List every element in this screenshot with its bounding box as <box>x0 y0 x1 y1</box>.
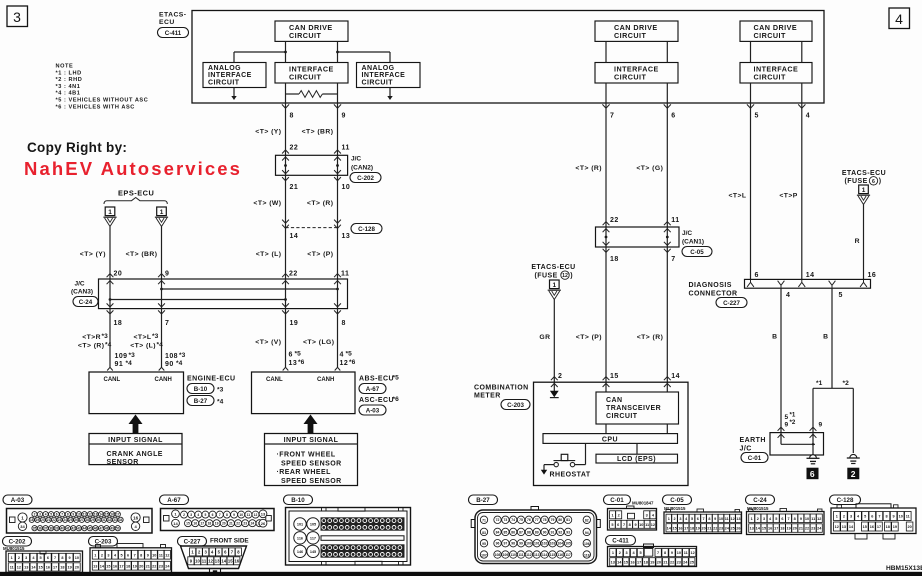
svg-text:NahEV Autoservices: NahEV Autoservices <box>24 158 242 179</box>
svg-text:21: 21 <box>663 560 667 564</box>
svg-text:12: 12 <box>562 273 568 279</box>
svg-text:7: 7 <box>657 551 659 555</box>
svg-text:1: 1 <box>668 517 670 521</box>
input signal box wheel speed sensors <box>265 434 358 486</box>
svg-text:15: 15 <box>863 525 867 529</box>
wire GR from fuse 12 to meter pin 2 <box>553 300 555 393</box>
svg-text:11: 11 <box>684 551 688 555</box>
svg-text:9: 9 <box>819 422 823 429</box>
svg-text:9: 9 <box>165 271 169 278</box>
svg-text:6: 6 <box>781 517 783 521</box>
analog interface circuit box left <box>203 63 266 88</box>
connector C-411 label capsule <box>158 28 189 38</box>
svg-text:ETACS-ECU: ETACS-ECU <box>842 170 886 177</box>
CAN drive circuit box 2 <box>595 21 678 41</box>
svg-text:15: 15 <box>672 526 676 530</box>
diagnosis top fork terminal x=750.5 <box>747 280 754 287</box>
svg-text:107: 107 <box>481 553 487 557</box>
svg-text:13: 13 <box>93 564 97 568</box>
svg-text:8: 8 <box>664 551 666 555</box>
svg-text:INTERFACE: INTERFACE <box>208 72 252 79</box>
svg-text:INPUT SIGNAL: INPUT SIGNAL <box>108 437 163 444</box>
svg-text:7: 7 <box>54 556 56 560</box>
svg-text:A-03: A-03 <box>11 497 25 504</box>
svg-text:3: 3 <box>13 9 21 25</box>
interface circuit box 2 <box>595 63 678 84</box>
svg-text:CIRCUIT: CIRCUIT <box>289 31 321 40</box>
svg-text:FRONT SIDE: FRONT SIDE <box>210 538 249 545</box>
svg-text:1: 1 <box>611 513 613 517</box>
svg-text:16: 16 <box>46 566 50 570</box>
svg-text:<T> (V): <T> (V) <box>255 339 281 346</box>
svg-text:7: 7 <box>165 320 169 327</box>
svg-text:19: 19 <box>696 526 700 530</box>
svg-text:CIRCUIT: CIRCUIT <box>289 73 321 82</box>
svg-text:15: 15 <box>186 522 190 526</box>
J/C CAN3 top terminal x=337.5 <box>334 274 341 278</box>
meter terminal x=667.3 <box>664 377 671 381</box>
svg-text:3: 3 <box>107 553 109 557</box>
diagnosis bottom fork terminal x=781 <box>778 281 785 288</box>
svg-text:110: 110 <box>510 553 516 557</box>
svg-text:C-203: C-203 <box>507 402 524 409</box>
svg-text:9: 9 <box>69 556 71 560</box>
svg-text:15: 15 <box>610 373 619 380</box>
svg-text:A-03: A-03 <box>366 407 380 414</box>
svg-text:<T> (R): <T> (R) <box>637 334 664 341</box>
svg-text:ETACS-: ETACS- <box>159 12 187 19</box>
svg-text:115: 115 <box>550 553 556 557</box>
svg-text:1: 1 <box>94 553 96 557</box>
connector view C-24 <box>746 495 775 505</box>
svg-text:13: 13 <box>611 560 615 564</box>
svg-text:22: 22 <box>670 560 674 564</box>
svg-text:*3: *3 <box>152 333 159 340</box>
wire CAN-L ETACS pin 8 down to J/C CAN2 <box>285 103 287 155</box>
svg-text:91: 91 <box>551 530 555 534</box>
connector view C-202 <box>3 537 32 547</box>
svg-text:RHEOSTAT: RHEOSTAT <box>550 471 591 478</box>
ETACS fuse 6 connector pin symbol <box>859 185 869 194</box>
svg-text:MU801515: MU801515 <box>3 546 25 551</box>
svg-text:NOTE: NOTE <box>56 64 74 70</box>
svg-text:*4: *4 <box>217 399 224 406</box>
svg-text:24: 24 <box>251 522 255 526</box>
svg-text:20: 20 <box>701 526 705 530</box>
wire J/C CAN2 pin 21 down to C-128 <box>285 175 287 227</box>
svg-text:7: 7 <box>703 517 705 521</box>
J/C CAN3 pass-through wire x=110 <box>109 279 111 309</box>
svg-text:9: 9 <box>634 523 636 527</box>
CAN drive circuit box 1 <box>275 21 348 41</box>
svg-text:9: 9 <box>714 517 716 521</box>
svg-text:<T> (L): <T> (L) <box>256 251 282 258</box>
svg-text:22: 22 <box>236 522 240 526</box>
svg-text:CONNECTOR: CONNECTOR <box>689 291 738 298</box>
svg-text:*5 : VEHICLES WITHOUT ASC: *5 : VEHICLES WITHOUT ASC <box>56 98 149 104</box>
svg-text:75: 75 <box>519 518 523 522</box>
svg-text:9: 9 <box>147 553 149 557</box>
svg-text:*1: *1 <box>790 412 796 419</box>
svg-text:GR: GR <box>539 334 550 341</box>
svg-text:18: 18 <box>610 256 619 263</box>
svg-text:1: 1 <box>160 209 164 216</box>
wire CPU to LCD <box>636 443 638 454</box>
svg-text:21: 21 <box>290 184 299 191</box>
svg-text:16: 16 <box>868 272 877 279</box>
svg-text:8: 8 <box>226 513 228 517</box>
svg-text:36: 36 <box>38 527 42 531</box>
svg-text:2: 2 <box>851 469 856 479</box>
svg-text:10: 10 <box>899 515 903 519</box>
svg-text:<T> (L): <T> (L) <box>130 343 156 350</box>
svg-text:1: 1 <box>751 517 753 521</box>
svg-text:19: 19 <box>36 518 40 522</box>
svg-text:B-10: B-10 <box>194 386 208 393</box>
svg-text:6: 6 <box>671 113 675 120</box>
meter terminal x=554.3 <box>551 377 558 381</box>
J/C CAN3 bottom terminal x=161.5 <box>158 310 165 314</box>
svg-text:22: 22 <box>152 564 156 568</box>
svg-text:J/C: J/C <box>351 156 361 163</box>
rheostat ground wire <box>544 464 554 466</box>
svg-text:7: 7 <box>61 513 63 517</box>
earth J/C terminals <box>778 427 785 431</box>
svg-text:5: 5 <box>785 414 789 421</box>
svg-text:15: 15 <box>624 560 628 564</box>
svg-text:·FRONT WHEEL: ·FRONT WHEEL <box>277 452 336 459</box>
svg-text:20: 20 <box>41 518 45 522</box>
svg-text:21: 21 <box>146 564 150 568</box>
svg-text:23: 23 <box>58 518 62 522</box>
connector C-128 label capsule <box>351 224 382 234</box>
ETACS pin 9 exit arrow <box>334 104 341 108</box>
svg-text:C-202: C-202 <box>9 539 26 546</box>
svg-text:CPU: CPU <box>602 436 618 443</box>
svg-text:18: 18 <box>208 522 212 526</box>
svg-text:81: 81 <box>566 518 570 522</box>
svg-text:): ) <box>570 273 573 280</box>
svg-text:*2: *2 <box>790 419 796 426</box>
svg-text:108: 108 <box>495 553 501 557</box>
wire J/C CAN1 pin 7 down to meter pin 14 <box>666 247 668 392</box>
ECU terminal tent x=110 <box>107 367 113 370</box>
svg-text:22: 22 <box>290 145 299 152</box>
svg-text:15: 15 <box>106 564 110 568</box>
svg-text:<T> (P): <T> (P) <box>307 251 333 258</box>
wire interface 1 outputs <box>285 83 287 103</box>
svg-text:23: 23 <box>719 526 723 530</box>
svg-text:22: 22 <box>610 217 619 224</box>
svg-text:17: 17 <box>684 526 688 530</box>
svg-text:7: 7 <box>671 256 675 263</box>
CPU box <box>543 434 678 444</box>
J/C CAN3 bottom terminal x=110 <box>107 310 114 314</box>
connector view B-27 <box>469 495 498 505</box>
svg-text:7: 7 <box>623 523 625 527</box>
svg-text:2: 2 <box>558 373 562 380</box>
svg-text:10: 10 <box>77 513 81 517</box>
svg-text:C-24: C-24 <box>753 497 767 504</box>
svg-text:METER: METER <box>474 393 501 400</box>
svg-text:20: 20 <box>793 527 797 531</box>
svg-text:9: 9 <box>72 513 74 517</box>
wire C-128 pin 13 down to J/C CAN3 <box>337 228 339 279</box>
EARTH J/C internal wire <box>780 433 782 445</box>
svg-text:MU801847: MU801847 <box>632 501 654 506</box>
svg-text:10: 10 <box>239 513 243 517</box>
svg-text:23: 23 <box>677 560 681 564</box>
svg-text:114: 114 <box>542 553 548 557</box>
svg-text:6: 6 <box>56 513 58 517</box>
svg-text:INPUT SIGNAL: INPUT SIGNAL <box>284 437 339 444</box>
svg-text:11: 11 <box>342 145 350 152</box>
svg-text:<T> (G): <T> (G) <box>636 165 663 172</box>
svg-text:A-67: A-67 <box>366 386 380 393</box>
svg-text:77: 77 <box>535 518 539 522</box>
svg-text:CIRCUIT: CIRCUIT <box>754 31 786 40</box>
ENGINE-ECU box <box>89 372 184 414</box>
svg-text:6: 6 <box>212 513 214 517</box>
svg-text:C-202: C-202 <box>357 175 374 182</box>
svg-text:25: 25 <box>69 518 73 522</box>
J/C CAN3 internal CAN-L bus <box>110 299 286 301</box>
svg-text:10: 10 <box>152 553 156 557</box>
svg-text:14: 14 <box>221 558 226 563</box>
wire ETACS pin 4 down to diagnosis pin 14 <box>801 103 803 279</box>
svg-text:79: 79 <box>551 518 555 522</box>
input signal arrow abs <box>304 415 318 425</box>
svg-text:CIRCUIT: CIRCUIT <box>362 80 394 87</box>
svg-text:19: 19 <box>786 527 790 531</box>
svg-text:*3: *3 <box>217 387 224 394</box>
svg-text:101: 101 <box>534 542 540 546</box>
svg-text:85: 85 <box>504 530 508 534</box>
svg-text:SPEED SENSOR: SPEED SENSOR <box>281 478 342 485</box>
ABS-ASC-ECU box <box>252 372 356 414</box>
svg-text:98: 98 <box>511 542 515 546</box>
svg-text:16: 16 <box>110 513 114 517</box>
LCD EPS box <box>596 454 678 463</box>
svg-text:5: 5 <box>639 551 641 555</box>
svg-text:22: 22 <box>805 527 809 531</box>
wire diagnosis pin 5 down to split <box>831 288 833 388</box>
J/C (CAN2) box <box>276 155 348 175</box>
svg-text:13: 13 <box>94 513 98 517</box>
svg-text:3: 3 <box>25 556 27 560</box>
svg-text:6: 6 <box>47 556 49 560</box>
svg-text:(CAN2): (CAN2) <box>351 165 373 172</box>
J/C CAN2 internal wires and junctions <box>285 155 287 175</box>
page number box 4 <box>889 8 910 29</box>
svg-text:C-24: C-24 <box>79 299 93 306</box>
svg-text:16: 16 <box>133 515 139 520</box>
wire ETACS pin 6 down to J/C CAN1 <box>666 103 668 227</box>
EARTH J/C box <box>770 433 824 455</box>
inline connector C-128 dashed interface <box>286 227 338 229</box>
svg-text:108: 108 <box>165 353 178 360</box>
svg-text:18: 18 <box>60 566 64 570</box>
svg-text:9: 9 <box>342 113 346 120</box>
ground symbol 2 <box>850 454 857 457</box>
wire J/C CAN3 down to ECU x=161.5 <box>161 309 163 368</box>
svg-text:8: 8 <box>342 320 346 327</box>
svg-text:TRANSCEIVER: TRANSCEIVER <box>606 405 661 412</box>
svg-text:3: 3 <box>39 513 41 517</box>
svg-text:27: 27 <box>80 518 84 522</box>
svg-text:23: 23 <box>811 527 815 531</box>
svg-text:47: 47 <box>99 527 103 531</box>
svg-text:*2 : RHD: *2 : RHD <box>56 77 83 83</box>
J/C CAN2 bottom terminals <box>282 177 289 181</box>
svg-text:B-27: B-27 <box>194 398 208 405</box>
ETACS pin 7 exit arrow <box>602 104 609 108</box>
svg-text:7: 7 <box>219 513 221 517</box>
svg-text:CANH: CANH <box>155 377 172 383</box>
svg-text:22: 22 <box>52 518 56 522</box>
svg-text:C-01: C-01 <box>748 455 762 462</box>
svg-text:9: 9 <box>671 551 673 555</box>
svg-text:18: 18 <box>644 560 648 564</box>
ECU terminal tent x=337.5 <box>335 367 341 370</box>
right analog box output arrow <box>389 88 391 97</box>
svg-text:1: 1 <box>836 515 838 519</box>
svg-text:MU801515: MU801515 <box>747 506 769 511</box>
svg-text:SPEED SENSOR: SPEED SENSOR <box>281 460 342 467</box>
connector view C-203 <box>89 537 118 547</box>
diagnosis top fork terminal x=801.8 <box>798 280 805 287</box>
svg-text:84: 84 <box>496 530 500 534</box>
svg-text:12: 12 <box>88 513 92 517</box>
svg-text:37: 37 <box>44 527 48 531</box>
svg-text:90: 90 <box>165 361 174 368</box>
svg-text:<T> (R): <T> (R) <box>78 343 105 350</box>
svg-text:9: 9 <box>893 515 895 519</box>
svg-text:5: 5 <box>611 523 613 527</box>
svg-text:80: 80 <box>558 518 562 522</box>
svg-text:13: 13 <box>842 525 846 529</box>
svg-text:3: 3 <box>626 551 628 555</box>
svg-text:B: B <box>772 334 777 341</box>
svg-text:105: 105 <box>310 523 316 527</box>
svg-text:46: 46 <box>94 527 98 531</box>
svg-text:ANALOG: ANALOG <box>362 65 395 72</box>
svg-text:C-411: C-411 <box>612 538 629 545</box>
svg-text:2: 2 <box>101 553 103 557</box>
svg-text:3: 3 <box>646 513 648 517</box>
connector view A-67 <box>160 495 189 505</box>
svg-text:CANL: CANL <box>104 377 121 383</box>
svg-text:28: 28 <box>86 518 90 522</box>
svg-text:6: 6 <box>871 515 873 519</box>
svg-text:145: 145 <box>310 550 316 554</box>
svg-text:CANH: CANH <box>317 377 334 383</box>
svg-text:<T> (P): <T> (P) <box>576 334 602 341</box>
J/C CAN3 pass-through wire x=161.5 <box>161 279 163 309</box>
svg-text:8: 8 <box>67 513 69 517</box>
svg-text:146: 146 <box>297 550 303 554</box>
CAN drive circuit box 3 <box>740 21 812 41</box>
svg-text:1: 1 <box>552 282 556 289</box>
wire EPS-ECU left down to J/C CAN3 pin 20 <box>109 227 111 280</box>
svg-text:2: 2 <box>18 556 20 560</box>
svg-text:13: 13 <box>750 527 754 531</box>
connector view C-128 <box>830 495 861 505</box>
connector C-202 label capsule <box>350 173 381 183</box>
svg-text:6: 6 <box>697 517 699 521</box>
svg-text:17: 17 <box>877 525 881 529</box>
svg-text:CIRCUIT: CIRCUIT <box>754 73 786 82</box>
svg-text:18: 18 <box>780 527 784 531</box>
svg-text:6: 6 <box>810 469 815 479</box>
svg-text:*4 : 4B1: *4 : 4B1 <box>56 91 81 97</box>
J/C (CAN1) box <box>596 227 680 247</box>
svg-text:18: 18 <box>886 525 890 529</box>
svg-text:13: 13 <box>215 558 220 563</box>
svg-text:(FUSE: (FUSE <box>845 178 868 185</box>
svg-text:83: 83 <box>482 531 486 535</box>
svg-text:SENSOR: SENSOR <box>107 459 139 466</box>
svg-text:12: 12 <box>208 558 213 563</box>
svg-text:26: 26 <box>261 521 266 526</box>
svg-text:15: 15 <box>105 513 109 517</box>
C-128 terminals on wire 14 <box>282 220 289 224</box>
svg-text:COMBINATION: COMBINATION <box>474 384 529 391</box>
svg-text:6: 6 <box>872 179 875 185</box>
wire CAN drive 2 to interface 2 right <box>666 41 668 62</box>
svg-text:16: 16 <box>768 527 772 531</box>
svg-text:<T> (BR): <T> (BR) <box>126 251 158 258</box>
svg-text:50: 50 <box>116 527 120 531</box>
ETACS-ECU block outline <box>192 11 824 104</box>
wire CAN drive 3 to interface 3 left <box>750 41 752 62</box>
svg-text:9: 9 <box>785 422 789 429</box>
svg-text:106: 106 <box>584 542 590 546</box>
svg-text:34: 34 <box>20 524 25 529</box>
wire branch to left analog box <box>234 51 286 53</box>
svg-text:102: 102 <box>542 542 548 546</box>
J/C CAN2 top terminals <box>282 150 289 154</box>
wire J/C CAN3 down to ECU x=285.5 <box>285 309 287 368</box>
svg-text:44: 44 <box>83 527 87 531</box>
svg-text:8: 8 <box>629 523 631 527</box>
svg-text:*5: *5 <box>346 350 353 357</box>
connector B-10 label capsule <box>187 384 214 394</box>
ETACS fuse 12 connector pin symbol <box>550 280 560 289</box>
svg-text:16: 16 <box>630 560 634 564</box>
svg-text:99: 99 <box>519 542 523 546</box>
svg-text:*3 : 4N1: *3 : 4N1 <box>56 84 81 90</box>
svg-text:C-01: C-01 <box>610 497 624 504</box>
svg-text:9: 9 <box>800 517 802 521</box>
wire diagnosis pin 4 down to earth J/C <box>780 288 782 432</box>
svg-text:26: 26 <box>74 518 78 522</box>
svg-text:ENGINE-ECU: ENGINE-ECU <box>187 375 235 382</box>
svg-text:10: 10 <box>195 558 200 563</box>
svg-text:3: 3 <box>679 517 681 521</box>
svg-text:89: 89 <box>535 530 539 534</box>
svg-text:<T> (BR): <T> (BR) <box>302 129 334 136</box>
svg-text:16: 16 <box>678 526 682 530</box>
svg-text:14: 14 <box>671 373 680 380</box>
svg-text:10: 10 <box>342 184 351 191</box>
svg-text:*1: *1 <box>816 380 823 387</box>
svg-text:2: 2 <box>619 551 621 555</box>
wire branch to right analog box <box>338 51 391 53</box>
earth point 2 black tag <box>847 468 859 480</box>
svg-text:<T> (LG): <T> (LG) <box>303 339 335 346</box>
svg-text:14: 14 <box>806 272 815 279</box>
